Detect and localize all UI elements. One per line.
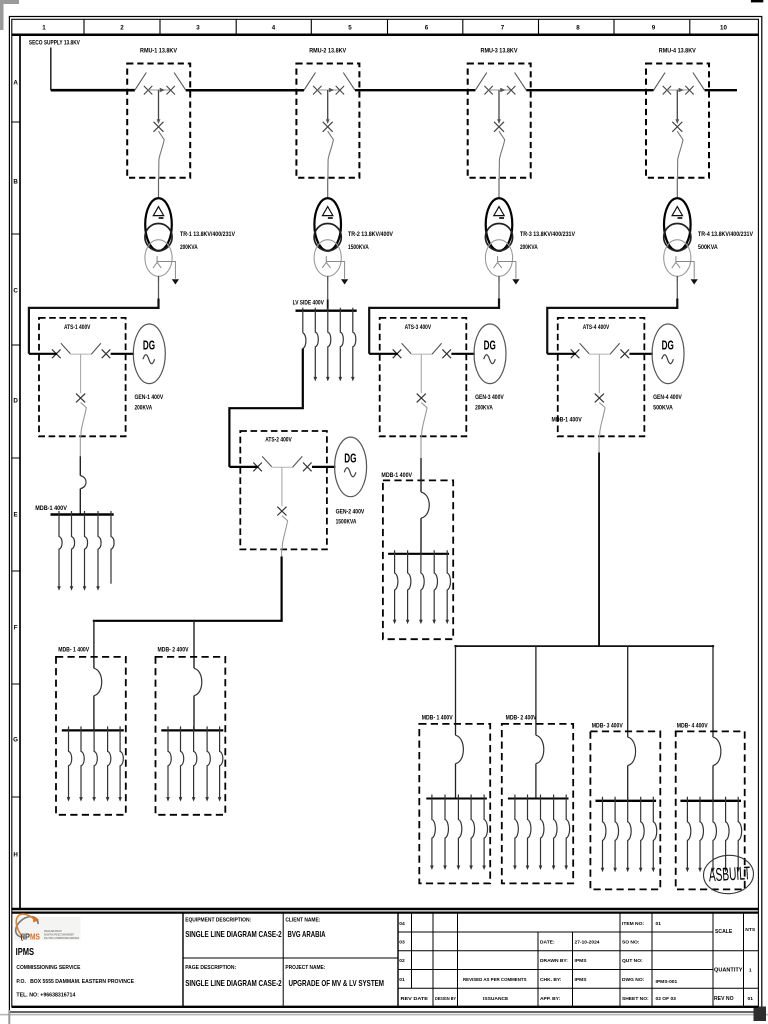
feeder MDB1E-5 [111, 511, 114, 584]
bus: MDB-1 row E [51, 513, 114, 515]
bus: MDB-4 bottom-right [680, 800, 741, 802]
feeder BR4-1 [686, 797, 691, 873]
svg-text:REVISED AS PER COMMENTS: REVISED AS PER COMMENTS [463, 977, 527, 982]
wire: drop to MDB-4 bottom-right [712, 646, 714, 737]
svg-text:200KVA: 200KVA [135, 405, 153, 412]
transformer TR-3 [485, 178, 519, 285]
feeder BR2-4 [552, 795, 557, 871]
feeder BR1-5 [482, 795, 487, 871]
svg-text:CHK. BY:: CHK. BY: [540, 977, 562, 983]
wire: drop to MDB-2 bottom-right [535, 646, 537, 735]
svg-text:G: G [13, 737, 18, 744]
feeder BR3-3 [626, 797, 631, 873]
svg-text:P.O. BOX 5555 DAMMAM. EASTER: P.O. BOX 5555 DAMMAM. EASTERN PROVINCE [16, 979, 134, 985]
feeder MDB1E-3 [83, 511, 88, 591]
breaker: MDB-1 BR incoming [456, 735, 464, 798]
ASBUILT stamp [703, 854, 755, 895]
svg-text:UPGRADE OF MV & LV SYSTEM: UPGRADE OF MV & LV SYSTEM [289, 979, 385, 988]
wire: ATS-4 feed stub [547, 353, 576, 355]
automatic transfer switch ATS-1 [39, 318, 165, 436]
svg-text:3: 3 [196, 25, 200, 32]
svg-text:4: 4 [272, 25, 276, 32]
svg-text:SINGLE LINE DIAGRAM CASE-2: SINGLE LINE DIAGRAM CASE-2 [185, 930, 282, 939]
svg-text:DWG NO:: DWG NO: [622, 977, 645, 983]
feeder BL1-5 [118, 726, 123, 801]
svg-text:SO NO:: SO NO: [622, 940, 640, 946]
panel box MDB-2 bottom-right [502, 724, 573, 884]
ring main unit RMU-2 [296, 63, 359, 177]
svg-text:DATE:: DATE: [540, 940, 555, 946]
generator GEN-3 label [475, 394, 504, 411]
wire: drop to MDB-1 bottom-right [455, 646, 457, 735]
automatic transfer switch ATS-2 [240, 431, 366, 549]
TR-2 value label [348, 231, 394, 251]
wire: drop to MDB-1 bottom-left [93, 621, 95, 669]
feeder BR4-5 [736, 797, 741, 873]
svg-text:A: A [13, 80, 18, 87]
svg-text:C: C [13, 288, 18, 295]
svg-text:NTS: NTS [745, 927, 756, 933]
bus: MDB-1 below ATS-3 [388, 553, 449, 555]
svg-text:ATS-3 400V: ATS-3 400V [405, 324, 432, 331]
svg-text:PROJECT NAME:: PROJECT NAME: [285, 965, 325, 971]
wire: drop to MDB-2 bottom-left [193, 621, 195, 669]
svg-text:GEN-2 400V: GEN-2 400V [336, 508, 365, 515]
feeder BR1-4 [469, 795, 474, 871]
breaker: MDB-4 BR incoming [713, 737, 721, 801]
svg-text:IPMS: IPMS [575, 977, 588, 983]
svg-text:SOLUTION & COMMISSIONING SERVI: SOLUTION & COMMISSIONING SERVICES [44, 936, 79, 940]
svg-text:10: 10 [720, 25, 727, 32]
svg-text:MDB-1 400V: MDB-1 400V [552, 416, 583, 423]
wire: ATS-1 feed stub [29, 353, 57, 355]
panel box MDB-2 bottom-left [156, 657, 226, 815]
bus: MDB-1 bottom-right [426, 798, 487, 800]
svg-text:TR-4 13.8KV/400/231V: TR-4 13.8KV/400/231V [698, 231, 754, 238]
feeder LV-5 [351, 308, 356, 382]
svg-text:RMU-3 13.8KV: RMU-3 13.8KV [481, 48, 519, 55]
feeder MDBA3-3 [419, 550, 424, 624]
wire: 13.8KV main bus segment 1 [51, 89, 135, 92]
feeder BR2-5 [564, 795, 569, 871]
feeder MDBA3-2 [406, 550, 411, 624]
svg-text:QUANTITY: QUANTITY [714, 968, 743, 974]
svg-text:MDB-1 400V: MDB-1 400V [381, 472, 413, 479]
svg-text:COMMISSIONING SERVICE: COMMISSIONING SERVICE [16, 965, 80, 971]
wire: 13.8KV main bus segment 5 [705, 89, 737, 91]
svg-text:01: 01 [656, 921, 662, 927]
feeder MDB1E-1 [57, 511, 62, 591]
svg-text:ISSUANCE: ISSUANCE [483, 996, 509, 1002]
svg-text:1: 1 [42, 25, 46, 32]
svg-text:BVG ARABIA: BVG ARABIA [288, 930, 326, 939]
feeder BL2-2 [179, 726, 184, 801]
wire: ATS-4 output down to bottom-right bus [598, 436, 600, 646]
svg-text:(IP: (IP [21, 932, 31, 941]
feeder MDBA3-1 [393, 550, 398, 624]
feeder BL2-5 [218, 726, 223, 801]
feeder BR3-5 [652, 797, 657, 873]
svg-text:200KVA: 200KVA [520, 244, 538, 251]
svg-text:SHEET NO:: SHEET NO: [622, 996, 649, 1002]
feeder BL1-4 [106, 726, 111, 801]
feeder BR1-2 [443, 795, 448, 871]
svg-text:ATS-4 400V: ATS-4 400V [583, 324, 610, 331]
wire: TR-1 secondary to ATS-1 feed [158, 276, 160, 300]
feeder BL2-3 [192, 726, 197, 801]
breaker: MDB-2 BL incoming [194, 668, 202, 730]
svg-text:27-10-2024: 27-10-2024 [575, 940, 600, 946]
svg-text:RMU-4 13.8KV: RMU-4 13.8KV [659, 48, 697, 55]
svg-text:MS: MS [30, 932, 40, 941]
svg-text:500KVA: 500KVA [698, 244, 718, 251]
svg-text:2: 2 [120, 25, 124, 32]
svg-text:ATS-2 400V: ATS-2 400V [265, 436, 292, 443]
wire: feed bus to bottom-left MDB group [93, 620, 283, 622]
svg-text:MDB- 1 400V: MDB- 1 400V [58, 647, 90, 654]
svg-text:LV SIDE 400V: LV SIDE 400V [293, 299, 325, 306]
feeder BR2-1 [513, 795, 518, 871]
wire: TR-4 secondary to ATS-4 feed [676, 276, 678, 300]
wire: LV bus feeder 1 to ATS-2 (with breaker) [302, 308, 304, 333]
feeder LV-3 [326, 308, 331, 382]
svg-text:8: 8 [576, 25, 580, 32]
svg-text:MDB- 2 400V: MDB- 2 400V [158, 647, 190, 654]
svg-text:MDB- 4 400V: MDB- 4 400V [677, 722, 709, 729]
svg-text:RMU-1 13.8KV: RMU-1 13.8KV [140, 48, 178, 55]
svg-text:01: 01 [399, 977, 405, 983]
wire: ATS-2 feed stub [229, 466, 258, 468]
wire: 13.8KV main bus segment 2 [186, 89, 304, 92]
svg-text:IPMS-001: IPMS-001 [656, 979, 678, 985]
feeder BL1-2 [79, 726, 84, 801]
svg-text:GEN-3 400V: GEN-3 400V [475, 394, 504, 401]
svg-text:APP. BY:: APP. BY: [540, 996, 561, 1002]
svg-text:03: 03 [399, 940, 405, 946]
svg-text:MDB- 1 400V: MDB- 1 400V [422, 715, 454, 722]
svg-text:1: 1 [749, 968, 752, 974]
automatic transfer switch ATS-4 [558, 318, 684, 436]
ring main unit RMU-3 [468, 63, 531, 177]
feeder BR3-2 [613, 797, 618, 873]
svg-text:TR-2 13.8KV/400V: TR-2 13.8KV/400V [348, 231, 394, 238]
svg-text:9: 9 [652, 25, 656, 32]
bus: MDB-2 bottom-right [508, 798, 569, 800]
svg-text:ITEM NO:: ITEM NO: [622, 921, 644, 927]
feeder MDB1E-4 [96, 511, 101, 591]
svg-text:ATS-1 400V: ATS-1 400V [64, 324, 91, 331]
svg-text:500KVA: 500KVA [653, 405, 673, 412]
feeder BL2-1 [166, 726, 171, 801]
svg-text:B: B [13, 179, 18, 186]
feeder BR2-3 [539, 795, 544, 871]
wire: ATS-3 output to MDB with incoming breaker [421, 436, 429, 554]
svg-text:DESIGN BY: DESIGN BY [435, 996, 457, 1002]
svg-text:MDB- 2 400V: MDB- 2 400V [506, 715, 538, 722]
svg-text:PAGE DESCRIPTION:: PAGE DESCRIPTION: [185, 965, 236, 971]
svg-text:IPMS: IPMS [575, 958, 588, 964]
transformer TR-4 [664, 178, 698, 285]
generator GEN-2 label [336, 508, 365, 525]
svg-text:MDB-1 400V: MDB-1 400V [35, 505, 68, 512]
bus: bottom-right MDB group feed [454, 645, 714, 647]
feeder BR4-2 [698, 797, 703, 873]
svg-text:6: 6 [425, 25, 429, 32]
bus: LV SIDE 400V [296, 310, 357, 312]
generator GEN-1 label [135, 394, 164, 411]
feeder BL1-1 [67, 726, 72, 801]
panel box MDB-1 bottom-right [419, 724, 490, 884]
feeder BR3-4 [639, 797, 644, 873]
svg-text:DRAWN BY:: DRAWN BY: [540, 958, 568, 964]
svg-text:200KVA: 200KVA [180, 244, 198, 251]
svg-text:200KVA: 200KVA [475, 405, 493, 412]
svg-text:TR-3 13.8KV/400/231V: TR-3 13.8KV/400/231V [520, 231, 576, 238]
wire: 13.8KV main bus segment 3 [355, 89, 475, 91]
bus: MDB-2 bottom-left [161, 729, 223, 731]
svg-text:D: D [13, 398, 18, 405]
feeder BR4-3 [711, 797, 716, 873]
wire: TR-2 secondary down to LV bus [327, 276, 329, 301]
svg-text:TR-1 13.8KV/400/231V: TR-1 13.8KV/400/231V [180, 231, 236, 238]
feeder BR4-4 [724, 797, 729, 873]
feeder LV-2 [314, 308, 319, 382]
svg-text:E: E [14, 512, 18, 519]
ring main unit RMU-4 [646, 63, 709, 177]
feeder MDB1E-2 [70, 511, 75, 591]
svg-text:GEN-4 400V: GEN-4 400V [653, 394, 682, 401]
svg-text:1500KVA: 1500KVA [336, 519, 357, 526]
svg-text:7: 7 [501, 25, 505, 32]
TR-4 value label [698, 231, 754, 251]
svg-text:SINGLE LINE DIAGRAM CASE-2: SINGLE LINE DIAGRAM CASE-2 [185, 979, 282, 988]
wire: 13.8KV main bus segment 4 [526, 89, 653, 91]
bus: MDB-1 bottom-left [62, 729, 124, 731]
panel box MDB-3 bottom-right [590, 731, 660, 889]
generator GEN-4 label [653, 394, 682, 411]
svg-text:01: 01 [747, 996, 753, 1002]
svg-text:IPMS: IPMS [16, 947, 35, 958]
svg-text:04: 04 [399, 921, 405, 927]
svg-text:H: H [13, 852, 18, 859]
svg-text:1500KVA: 1500KVA [348, 244, 369, 251]
svg-text:5: 5 [348, 25, 352, 32]
svg-text:RMU-2 13.8KV: RMU-2 13.8KV [309, 48, 347, 55]
transformer TR-2 [314, 178, 348, 285]
breaker: MDB-2 BR incoming [536, 735, 544, 798]
panel box MDB-4 bottom-right [676, 731, 745, 889]
TR-1 value label [180, 231, 236, 251]
wire: SECO supply drop [50, 48, 52, 91]
svg-text:ASBUILT: ASBUILT [708, 862, 751, 885]
svg-text:CLIENT NAME:: CLIENT NAME: [285, 918, 320, 924]
ring main unit RMU-1 [127, 63, 190, 177]
wire: ATS-2 output down [281, 549, 283, 620]
svg-text:02: 02 [399, 958, 405, 964]
breaker: MDB-3 BR incoming [628, 737, 636, 801]
svg-text:REV DATE: REV DATE [401, 996, 429, 1002]
panel box MDB-1 bottom-left [56, 657, 126, 815]
feeder BL2-4 [205, 726, 210, 801]
feeder BR3-1 [601, 797, 606, 873]
feeder BR1-1 [430, 795, 435, 871]
bus: MDB-3 bottom-right [596, 800, 657, 802]
svg-text:QUT NO:: QUT NO: [622, 958, 643, 964]
wire: TR-3 secondary to ATS-3 feed [498, 276, 500, 300]
svg-text:TEL. NO: +96638316714: TEL. NO: +96638316714 [16, 993, 76, 999]
panel box MDB-1 below ATS-3 [383, 480, 453, 639]
svg-text:SECO SUPPLY 13.8KV: SECO SUPPLY 13.8KV [29, 40, 81, 47]
svg-text:MDB- 3 400V: MDB- 3 400V [592, 722, 624, 729]
TR-3 value label [520, 231, 576, 251]
wire: ATS-3 feed stub [369, 353, 398, 355]
feeder LV-4 [339, 308, 344, 382]
svg-text:F: F [14, 625, 18, 632]
feeder BR1-3 [457, 795, 462, 871]
transformer TR-1 [145, 178, 179, 285]
svg-text:EQUIPMENT DESCRIPTION:: EQUIPMENT DESCRIPTION: [185, 918, 251, 924]
feeder BL1-3 [92, 726, 97, 801]
svg-text:SCALE: SCALE [715, 929, 733, 935]
automatic transfer switch ATS-3 [380, 318, 506, 436]
breaker: MDB-1 BL incoming [94, 668, 102, 730]
feeder MDBA3-4 [432, 550, 437, 624]
wire: ATS-1 output to MDB-1 with incoming breaker [80, 436, 86, 514]
svg-text:REV NO: REV NO [714, 996, 734, 1002]
feeder MDBA3-5 [445, 550, 450, 624]
svg-text:GEN-1 400V: GEN-1 400V [135, 394, 164, 401]
svg-text:02 OF 03: 02 OF 03 [656, 996, 677, 1002]
wire: drop to MDB-3 bottom-right [627, 646, 629, 737]
feeder BR2-2 [526, 795, 531, 871]
